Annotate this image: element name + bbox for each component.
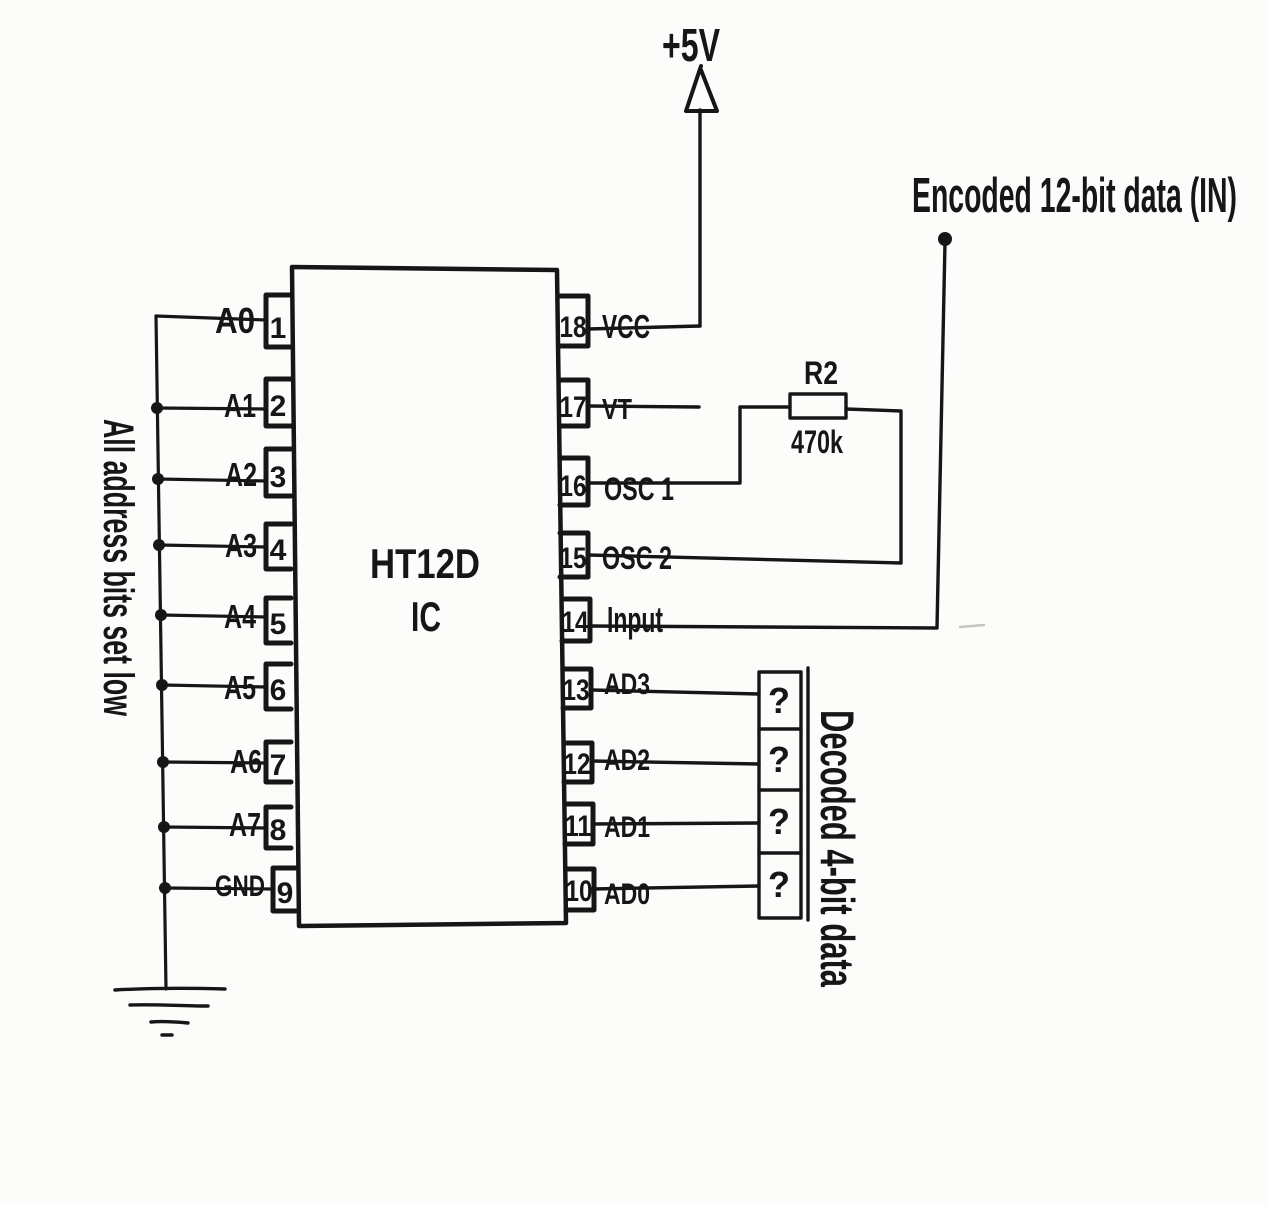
- svg-text:A7: A7: [229, 806, 261, 843]
- wire +5V vertical: [698, 110, 701, 326]
- wire VT stub: [588, 406, 699, 407]
- svg-text:4: 4: [270, 534, 287, 567]
- svg-text:OSC 1: OSC 1: [604, 471, 674, 507]
- svg-text:Encoded 12-bit data (IN): Encoded 12-bit data (IN): [912, 167, 1237, 223]
- svg-text:HT12D: HT12D: [370, 540, 480, 587]
- svg-text:AD3: AD3: [604, 668, 650, 701]
- node encoded data terminal dot: [938, 232, 952, 246]
- wire R2 right to OSC2: [588, 409, 901, 563]
- wire AD0 to output box: [592, 886, 759, 889]
- svg-text:11: 11: [565, 810, 592, 843]
- svg-text:13: 13: [563, 674, 590, 707]
- pin 15 box: [560, 533, 588, 577]
- svg-text:A5: A5: [224, 669, 256, 706]
- junction dot A1: [151, 402, 163, 414]
- svg-text:14: 14: [562, 606, 589, 639]
- svg-text:18: 18: [560, 311, 587, 344]
- svg-text:12: 12: [564, 748, 591, 781]
- svg-text:17: 17: [560, 391, 587, 424]
- svg-text:R2: R2: [804, 355, 838, 391]
- svg-text:?: ?: [768, 801, 790, 842]
- svg-text:7: 7: [270, 749, 287, 782]
- power symbol +5V arrow: [686, 66, 717, 111]
- svg-text:VT: VT: [602, 394, 632, 426]
- junction dot A5: [156, 679, 168, 691]
- svg-text:A0: A0: [215, 300, 255, 341]
- pin 10 box: [566, 869, 594, 910]
- wire AD1 to output box: [592, 823, 759, 824]
- wire OSC1 to R2 left: [590, 407, 790, 483]
- pin 1 box: [266, 295, 291, 347]
- pin 8 box: [266, 807, 291, 848]
- junction dot A6: [157, 756, 169, 768]
- wire AD3 to output box: [592, 690, 759, 694]
- pin 6 box: [266, 664, 291, 709]
- pin 5 box: [266, 598, 291, 643]
- svg-text:9: 9: [277, 877, 294, 910]
- svg-text:AD2: AD2: [604, 744, 650, 777]
- pin 9 box: [273, 868, 298, 911]
- svg-text:+5V: +5V: [662, 20, 720, 71]
- svg-text:470k: 470k: [791, 424, 843, 460]
- wire A3 to pin4: [159, 545, 266, 547]
- wire A4 to pin5: [161, 615, 266, 617]
- pin 14 box: [562, 599, 590, 641]
- pin 18 box: [560, 296, 588, 346]
- junction dot A2: [152, 473, 164, 485]
- stray mark near input bend: [960, 625, 984, 627]
- svg-text:VCC: VCC: [602, 308, 650, 345]
- ground symbol: [115, 988, 225, 1035]
- svg-text:16: 16: [560, 470, 587, 503]
- svg-text:8: 8: [270, 814, 287, 847]
- junction dot A4: [155, 609, 167, 621]
- svg-text:A1: A1: [224, 387, 256, 424]
- wire AD2 to output box: [592, 761, 759, 764]
- wire A6 to pin7: [163, 762, 266, 763]
- svg-text:AD1: AD1: [604, 811, 650, 844]
- svg-text:2: 2: [270, 390, 287, 423]
- pin 11 box: [565, 804, 593, 844]
- wire A7 to pin8: [164, 827, 266, 828]
- pin 13 box: [563, 669, 591, 708]
- svg-text:Input: Input: [607, 599, 663, 640]
- svg-text:5: 5: [270, 608, 287, 641]
- svg-text:AD0: AD0: [604, 878, 650, 911]
- pin 2 box: [266, 379, 291, 426]
- pin 3 box: [266, 449, 291, 496]
- wire Input to encoded data input: [590, 242, 945, 628]
- pin 17 box: [560, 380, 588, 426]
- pin 7 box: [266, 742, 291, 782]
- pin 4 box: [266, 524, 291, 569]
- svg-text:A2: A2: [225, 456, 257, 493]
- wire A2 to pin3: [158, 479, 266, 481]
- svg-text:OSC 2: OSC 2: [602, 540, 672, 576]
- output register box column: [759, 668, 808, 920]
- svg-text:GND: GND: [215, 870, 265, 903]
- wire left address bus vertical: [156, 316, 166, 989]
- svg-text:A3: A3: [225, 527, 257, 564]
- svg-text:?: ?: [768, 680, 790, 721]
- svg-text:15: 15: [560, 542, 587, 575]
- svg-text:All address bits set low: All address bits set low: [94, 419, 141, 716]
- junction dot A3: [153, 539, 165, 551]
- wire GND to pin9: [165, 888, 273, 889]
- pin 12 box: [564, 743, 592, 782]
- wire A0 to pin1: [156, 316, 266, 320]
- junction dot A7: [158, 821, 170, 833]
- svg-text:1: 1: [270, 312, 287, 345]
- svg-text:3: 3: [270, 461, 287, 494]
- svg-text:10: 10: [566, 875, 593, 908]
- svg-text:A4: A4: [224, 598, 256, 635]
- wire VCC pin18 to +5V: [588, 326, 700, 329]
- wire A1 to pin2: [157, 408, 266, 409]
- wire A5 to pin6: [162, 685, 266, 687]
- junction dot GND: [159, 882, 171, 894]
- svg-text:IC: IC: [411, 593, 441, 640]
- svg-text:Decoded 4-bit data: Decoded 4-bit data: [811, 710, 864, 988]
- pin 16 box: [560, 458, 588, 505]
- op-amp U1 IC HT12D body: [292, 267, 566, 926]
- svg-text:?: ?: [768, 739, 790, 780]
- svg-text:?: ?: [768, 864, 790, 905]
- resistor R2 body: [790, 394, 846, 418]
- svg-text:6: 6: [270, 674, 287, 707]
- svg-text:A6: A6: [230, 743, 262, 780]
